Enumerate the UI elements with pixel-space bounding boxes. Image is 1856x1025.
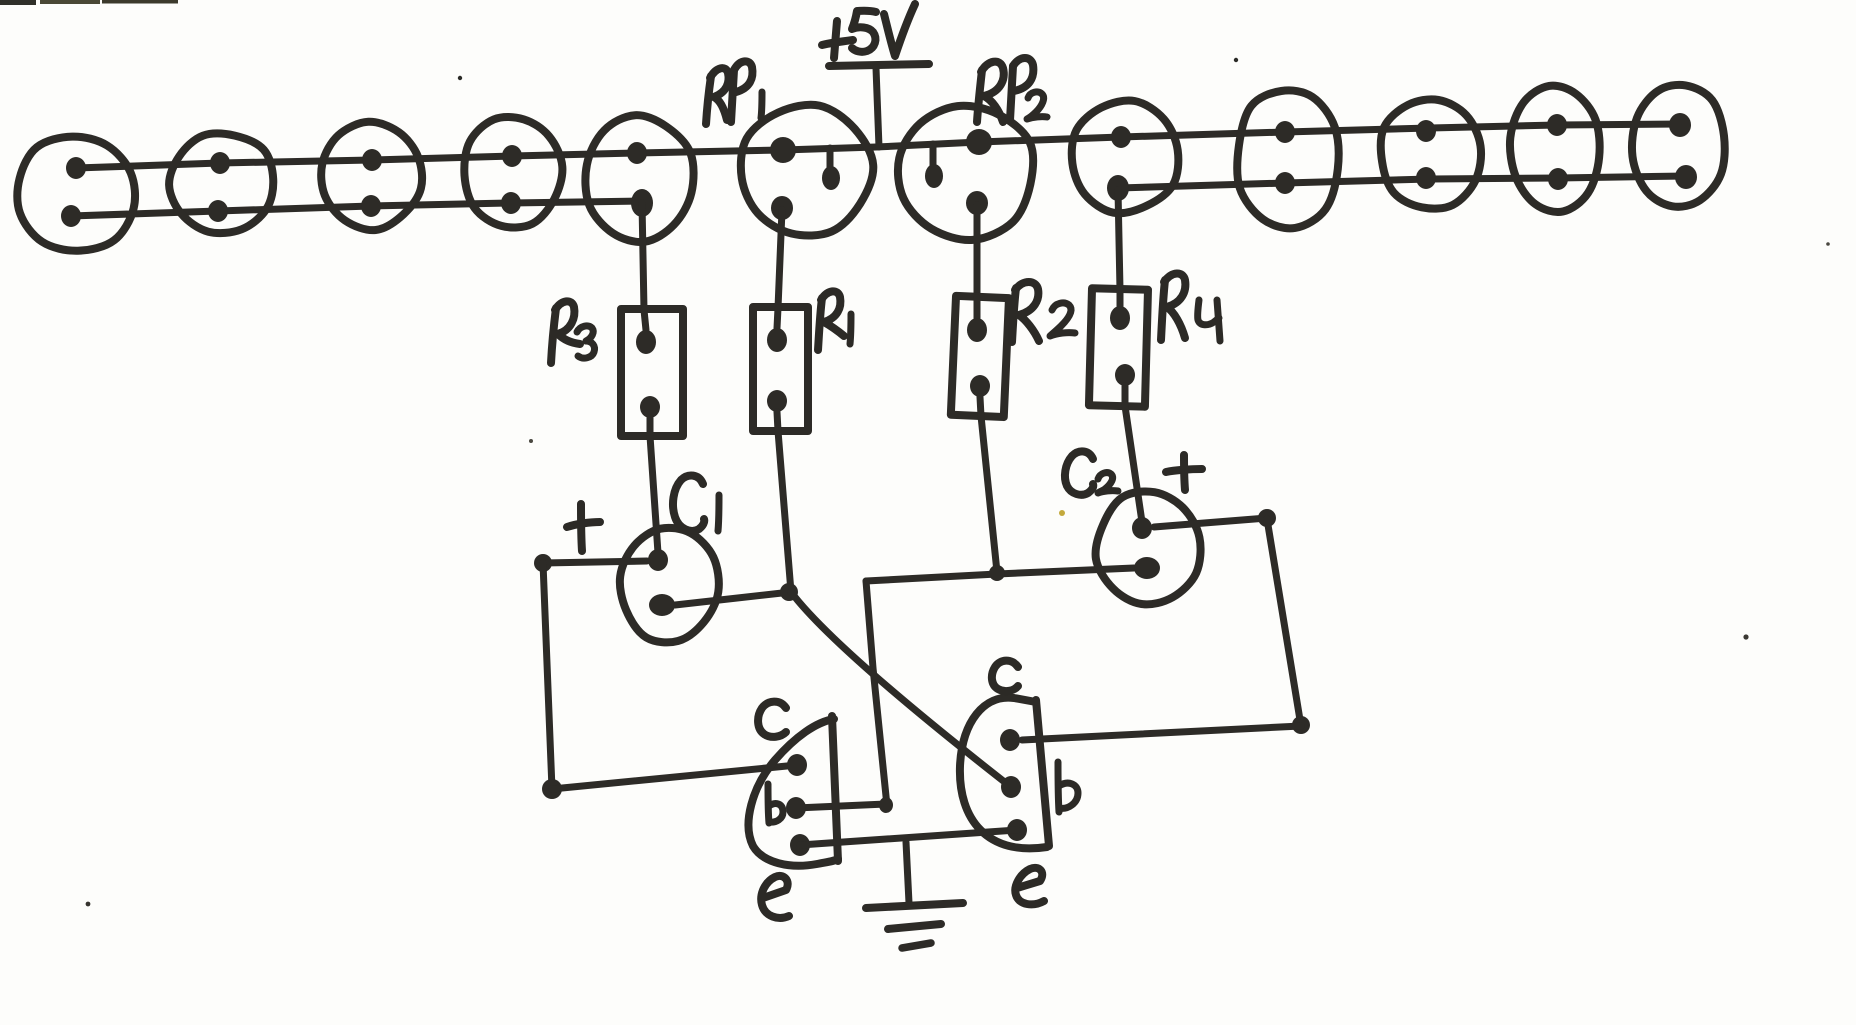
label +5V [822, 4, 915, 58]
wire bottom rail left [71, 201, 644, 216]
label Q1 e [761, 876, 789, 918]
label C1 [673, 475, 719, 531]
dust specks [458, 76, 462, 80]
wire RP1 to R1 [778, 210, 782, 308]
capacitor C2 [1096, 491, 1201, 604]
wire R1 to node A [778, 431, 791, 592]
scan edge artifact [0, 0, 36, 5]
wire LED D5 to R3 [642, 203, 644, 310]
capacitor C1 [620, 528, 719, 643]
LED D3 [321, 122, 422, 230]
transistor Q1 [749, 716, 838, 866]
LED D9 [1510, 86, 1600, 212]
label plus C2 [1166, 455, 1202, 490]
LED D6 [1072, 100, 1179, 213]
wire R3 to C1 [650, 436, 658, 553]
power +5V symbol [829, 64, 929, 147]
potentiometer RP2 [898, 106, 1033, 240]
wire node A diagonal to Q2 base [791, 592, 1011, 787]
LED D2 [169, 133, 273, 233]
node A [780, 583, 798, 601]
wire R4 to C2 [1125, 406, 1142, 522]
wire Q1 emitter to Q2 emitter [800, 830, 1017, 845]
label plus C1 [567, 504, 600, 551]
LED D5 [585, 115, 693, 242]
label C2 [1065, 451, 1118, 494]
transistor Q2 [960, 698, 1049, 849]
wire C1 bottom to node A [675, 592, 791, 605]
LED D10 [1632, 85, 1725, 207]
wire top rail [76, 124, 1680, 168]
wire right edge down [1267, 519, 1301, 726]
resistor R2 [951, 296, 1009, 417]
label RP1 [706, 61, 762, 124]
wire C2 top to right corner [1154, 518, 1267, 527]
wire to Q1 base [796, 804, 886, 808]
label Q1 b [768, 784, 783, 823]
wire bottom rail right [1118, 176, 1686, 188]
LED D8 [1381, 99, 1481, 208]
node B junction dot [989, 565, 1005, 581]
wire RP2 to R2 [974, 205, 981, 298]
LED D1 [17, 137, 135, 251]
wire LED D6 to R4 [1118, 190, 1120, 290]
wire node B down to Q1 base [866, 581, 887, 806]
ground [866, 842, 963, 948]
resistor R3 [621, 309, 683, 436]
wire left edge down [543, 563, 552, 789]
LED D4 [464, 117, 562, 228]
wire bottom edge to Q1 collector [552, 765, 797, 789]
wire node B horizontal to C2 bottom [866, 568, 1134, 581]
wire C1 top to left corner [543, 561, 647, 563]
label R3 [551, 301, 595, 363]
label Q1 c [758, 702, 786, 737]
label RP2 [977, 58, 1047, 122]
wire R2 to node B [981, 416, 997, 572]
label Q2 e [1015, 868, 1044, 905]
wire bottom edge to Q2 collector [1022, 726, 1301, 740]
label R4 [1161, 273, 1220, 341]
resistor R4 [1089, 288, 1148, 406]
label R2 [1012, 282, 1075, 342]
resistor R1 [753, 307, 808, 431]
LED D7 [1237, 90, 1338, 228]
label R1 [818, 291, 851, 350]
label Q2 b [1058, 762, 1078, 812]
label Q2 c [992, 661, 1018, 692]
potentiometer RP1 [741, 105, 873, 236]
